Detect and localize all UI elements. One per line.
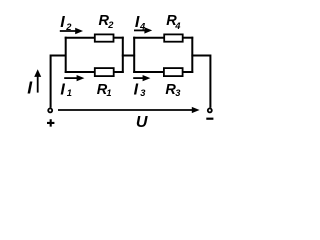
- resistor R3: [164, 68, 183, 76]
- minus label: [206, 118, 213, 120]
- svg-text:4: 4: [174, 21, 181, 31]
- resistor R4: [164, 34, 183, 41]
- current arrow I4: [134, 27, 152, 33]
- wire R1 to right rail: [114, 71, 124, 73]
- plus label: [47, 119, 54, 126]
- svg-text:I: I: [60, 14, 65, 31]
- node right rail: [191, 37, 193, 73]
- wire top branch left: [65, 37, 95, 39]
- wire bottom branch right: [133, 71, 164, 73]
- wire R3 to right rail: [183, 71, 193, 73]
- resistor R2: [95, 34, 114, 41]
- svg-text:3: 3: [175, 88, 181, 98]
- wire bottom branch left: [65, 71, 95, 73]
- svg-text:1: 1: [67, 88, 72, 98]
- svg-text:I: I: [60, 81, 65, 98]
- current arrow I1: [64, 75, 84, 81]
- node left rail of right loop: [133, 37, 135, 73]
- wire top branch right: [133, 37, 164, 39]
- node right rail of left loop: [122, 37, 124, 73]
- svg-text:2: 2: [107, 20, 114, 30]
- svg-text:3: 3: [140, 88, 146, 98]
- resistor R1: [95, 68, 114, 76]
- svg-text:I: I: [134, 81, 139, 98]
- svg-text:2: 2: [65, 22, 72, 32]
- svg-text:U: U: [136, 114, 148, 131]
- svg-text:I: I: [27, 78, 33, 98]
- wire R2 to right rail: [114, 37, 124, 39]
- terminal + node: [48, 108, 52, 112]
- current arrow I3: [133, 75, 150, 81]
- current arrow I2: [60, 28, 83, 34]
- svg-text:4: 4: [139, 22, 146, 32]
- node left rail: [65, 37, 67, 73]
- voltage arrow U: [58, 107, 200, 113]
- svg-text:1: 1: [106, 88, 111, 98]
- terminal - node: [208, 108, 212, 112]
- current arrow I (main, up): [34, 69, 41, 92]
- wire middle jog: [122, 55, 135, 57]
- wire R4 to right rail: [183, 37, 193, 39]
- wire feed left (terminal up to loop): [51, 56, 67, 108]
- wire right jog down to terminal: [191, 56, 210, 108]
